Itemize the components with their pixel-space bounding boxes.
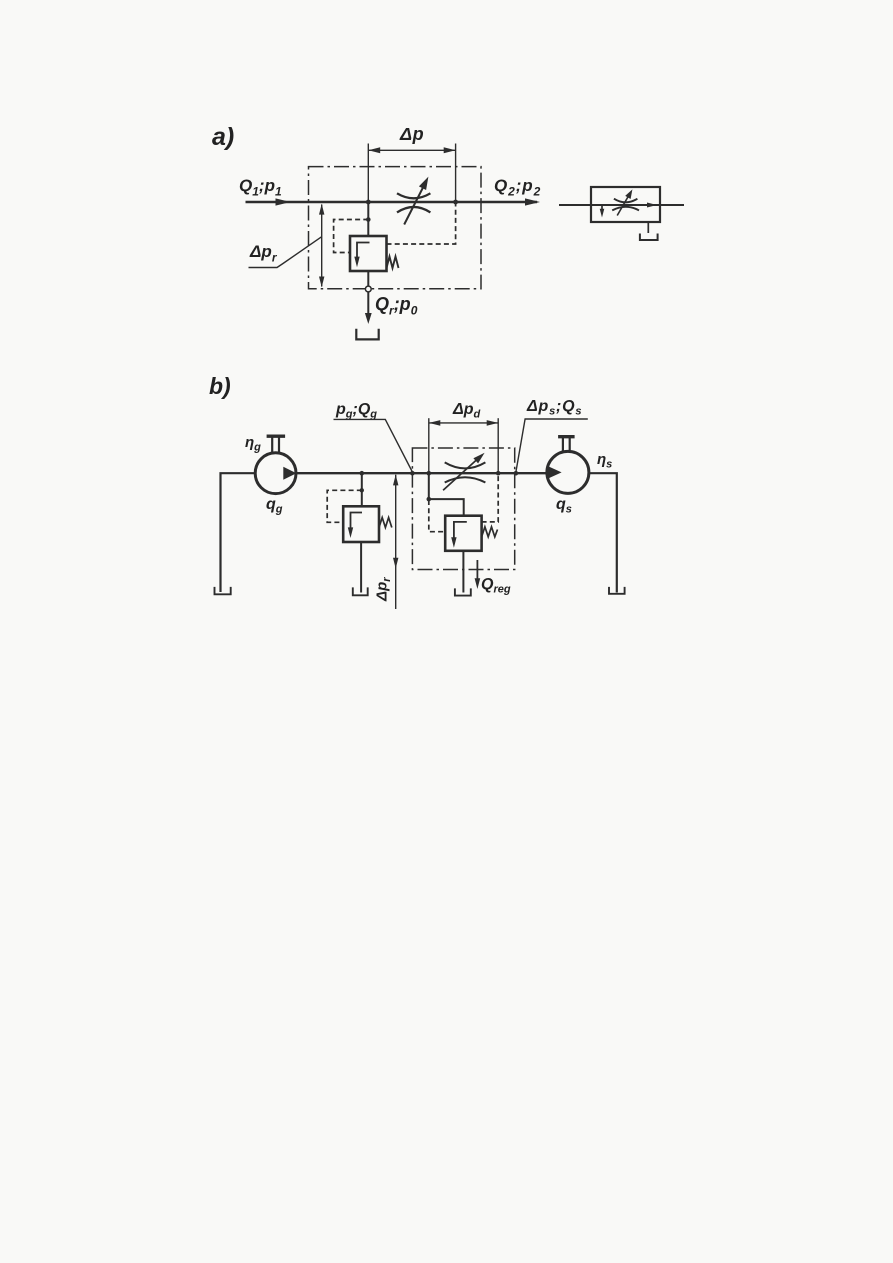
node: envelope left / pg <box>410 471 415 476</box>
node: open circle port on envelope <box>365 286 371 292</box>
svg-text:Δpr: Δpr <box>374 577 394 602</box>
wire: branch to relief valve (left) <box>361 473 363 506</box>
node: main line / compensator branch <box>366 200 371 205</box>
node: pilot junction <box>427 497 432 502</box>
wire: main line between pumps <box>296 472 547 474</box>
regulator valve spring <box>482 527 498 537</box>
svg-text:Q2;p2: Q2;p2 <box>494 176 541 199</box>
pressure compensator valve body <box>350 236 387 271</box>
node: left relief branch <box>360 471 365 476</box>
node: pilot tap on relief branch <box>360 488 364 492</box>
regulator valve internal flow path with arrow <box>454 522 467 539</box>
relief valve internal flow path with arrow <box>351 513 363 530</box>
pilot line (dashed) of relief valve <box>327 490 362 522</box>
svg-text:Qr;p0: Qr;p0 <box>375 294 418 318</box>
wire: valve outlet down <box>367 271 369 286</box>
internal throttle <box>614 199 638 203</box>
dimension Δpr (vertical, part a) <box>319 204 324 287</box>
svg-text:Δp: Δp <box>399 124 424 144</box>
valve internal flow path with arrow <box>357 243 370 260</box>
enclosure (dash-dot envelope of flow control valve) <box>309 167 482 289</box>
svg-text:Δps;Qs: Δps;Qs <box>526 398 582 418</box>
wire: relief valve to tank <box>360 542 362 593</box>
node: main line / pilot tap right <box>453 200 458 205</box>
svg-text:pg;Qg: pg;Qg <box>335 401 377 421</box>
pilot line (dashed, right of regulator valve to downstream) <box>482 474 499 522</box>
pilot line (dashed, left side) <box>334 220 369 253</box>
wire: main line Q1 to Q2 <box>246 201 538 204</box>
wire: left line down to tank <box>221 473 256 592</box>
adjustable throttle (variable restrictor) on main line <box>397 177 430 225</box>
pump/generator unit (left) <box>255 436 296 493</box>
dimension Δpr (vertical, part b) <box>393 475 398 609</box>
inlet flow arrow <box>276 198 291 205</box>
tank (under regulator valve) <box>455 588 471 595</box>
node: throttle upstream tap <box>427 471 432 476</box>
symbol body <box>591 187 660 222</box>
flow triangle <box>283 467 296 480</box>
flow triangle <box>547 466 561 479</box>
svg-text:Δpr: Δpr <box>249 242 278 265</box>
shaft <box>562 438 564 452</box>
internal right flow arrow <box>647 203 657 208</box>
pump circle <box>255 453 296 494</box>
wire: branch down to compensator valve <box>367 202 369 236</box>
dash-dot envelope (regulator, part b) <box>412 448 514 570</box>
svg-text:b): b) <box>209 373 231 399</box>
node: throttle downstream tap <box>496 471 501 476</box>
shaft <box>271 437 273 453</box>
internal down arrow (compensator) <box>601 205 603 211</box>
dimension Δp <box>368 124 455 202</box>
drain to tank <box>647 222 649 233</box>
svg-text:Qreg: Qreg <box>481 576 511 596</box>
node: pilot tap on branch <box>366 217 371 222</box>
tank (left, part b) <box>215 587 231 594</box>
tank (under left relief valve) <box>353 587 368 595</box>
svg-text:qg: qg <box>266 496 283 516</box>
wire through symbol <box>559 204 684 206</box>
pilot line (dashed, right side to downstream tap) <box>387 202 456 244</box>
Qreg drain arrow <box>476 560 478 581</box>
adjustable throttle (part b) <box>443 453 485 491</box>
outlet flow arrow <box>525 198 540 205</box>
relief valve body (left) <box>343 506 379 542</box>
tank (reservoir) under part a <box>356 329 378 340</box>
node: envelope right / Qs <box>514 471 519 476</box>
pump circle <box>547 451 589 493</box>
svg-text:ηs: ηs <box>597 451 612 471</box>
simplified flow-control-valve symbol (right) <box>559 187 684 240</box>
wire: supply to regulator valve <box>429 473 464 516</box>
relief valve spring <box>379 518 392 528</box>
pilot line (dashed, left of regulator valve) <box>429 500 444 532</box>
dimension Δpd <box>429 401 498 473</box>
svg-text:Δpd: Δpd <box>452 401 481 421</box>
wire: right line down to tank <box>589 473 617 592</box>
tank (reservoir) of simplified symbol <box>640 234 658 241</box>
svg-text:Q1;p1: Q1;p1 <box>239 176 282 199</box>
wire: regulator valve to tank <box>462 551 464 593</box>
wire: drain line with arrow <box>367 292 369 315</box>
valve spring <box>387 257 399 269</box>
svg-text:ηg: ηg <box>245 434 261 454</box>
tank (right, part b) <box>609 587 625 594</box>
svg-text:a): a) <box>212 123 234 151</box>
regulator valve body <box>445 516 481 551</box>
svg-text:qs: qs <box>556 496 572 516</box>
pump/motor unit (right) <box>547 437 589 494</box>
